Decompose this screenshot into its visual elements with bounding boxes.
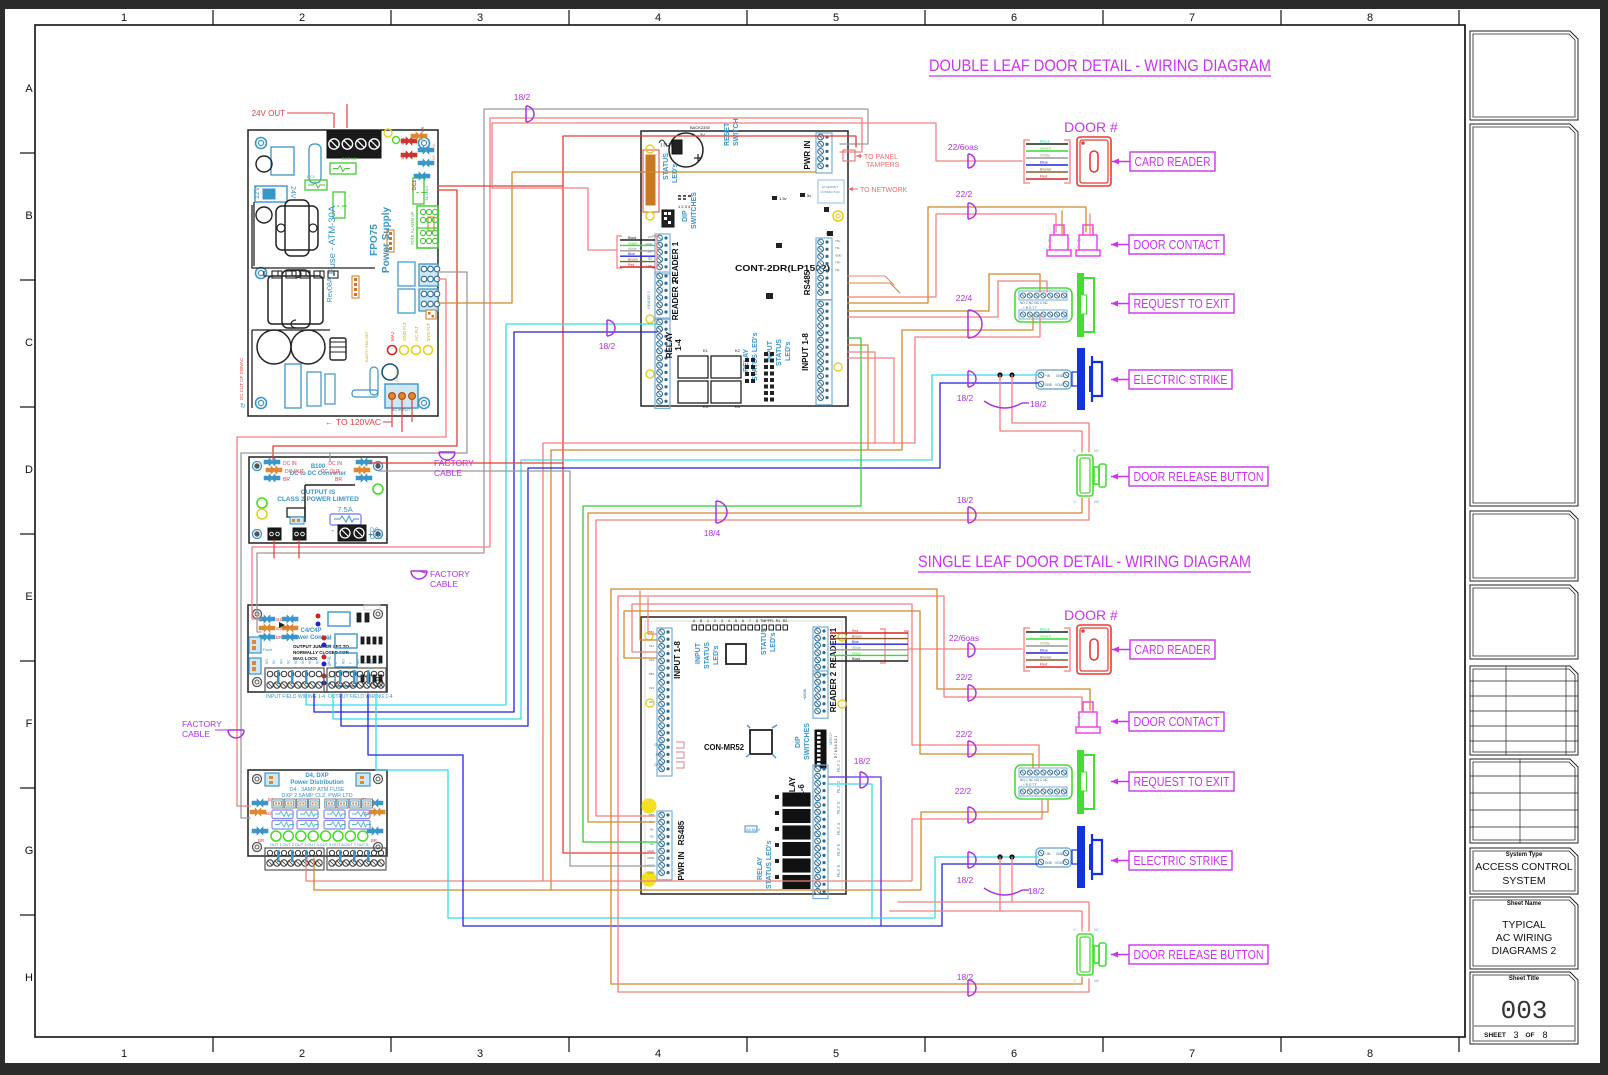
cable tie 18/2 release2 bottom bbox=[968, 980, 976, 996]
svg-text:V+: V+ bbox=[431, 154, 436, 160]
junction dots on strike 1 wires bbox=[997, 372, 1002, 377]
svg-text:DOOR RELEASE BUTTON: DOOR RELEASE BUTTON bbox=[1134, 948, 1264, 962]
door contact DC1b bbox=[1076, 225, 1100, 256]
svg-text:Green: Green bbox=[1040, 634, 1051, 639]
svg-text:IN-: IN- bbox=[650, 827, 654, 831]
PS1 output terminal block bbox=[327, 131, 381, 158]
wire: PS to D4 B1 (salmon) bbox=[237, 279, 446, 806]
access controller U2 CON-MR52 bbox=[641, 617, 846, 899]
svg-text:STATUS: STATUS bbox=[761, 628, 768, 655]
wire: REX2 feed (orange) bbox=[624, 611, 1033, 768]
svg-text:VO: VO bbox=[648, 235, 653, 239]
svg-text:Blue: Blue bbox=[1040, 648, 1049, 653]
svg-text:AC ON: AC ON bbox=[394, 369, 399, 382]
svg-text:BR: BR bbox=[420, 126, 425, 132]
svg-text:7: 7 bbox=[749, 619, 751, 623]
MR52 DIP switches bbox=[815, 730, 826, 768]
svg-text:003: 003 bbox=[1501, 996, 1548, 1026]
svg-text:LED's: LED's bbox=[770, 632, 777, 652]
title block box 3 bbox=[1470, 511, 1578, 581]
svg-text:5: 5 bbox=[833, 12, 839, 24]
terminal strip MR52 RELAY 1-6 bbox=[813, 765, 828, 899]
C4 field wiring terminal strips bbox=[265, 668, 324, 692]
svg-text:18/2: 18/2 bbox=[957, 495, 974, 505]
relays K1-K4 bbox=[678, 356, 708, 378]
svg-text:RESET: RESET bbox=[724, 122, 731, 146]
fuse F1 7.5A bbox=[330, 514, 361, 525]
wire: REX1 return to D4 (orange) bbox=[551, 315, 1033, 890]
svg-text:MR52+: MR52+ bbox=[828, 731, 833, 745]
svg-text:TAMPERS: TAMPERS bbox=[866, 162, 900, 169]
terminal strip MR52 RS485 / PWR IN bbox=[657, 811, 672, 880]
svg-text:+: + bbox=[368, 530, 373, 539]
svg-text:Brown: Brown bbox=[1040, 167, 1051, 172]
cable tie 22/2 contact2 bbox=[968, 685, 976, 701]
svg-text:8: 8 bbox=[1542, 1030, 1547, 1040]
svg-text:DC CUT OF 230VAC: DC CUT OF 230VAC bbox=[239, 357, 244, 400]
svg-text:DIP: DIP bbox=[682, 210, 689, 222]
wire: REX1 feed (salmon) bbox=[848, 281, 1047, 317]
memory backup connector bbox=[646, 155, 655, 205]
svg-text:4A: 4A bbox=[327, 637, 332, 641]
svg-text:IN1: IN1 bbox=[649, 644, 654, 648]
svg-text:LED's: LED's bbox=[672, 163, 679, 183]
GND/PFL pins bbox=[676, 742, 684, 748]
svg-text:DC OUT: DC OUT bbox=[285, 469, 304, 475]
svg-text:Black: Black bbox=[628, 236, 637, 240]
cable tie 22/4 rex1 bbox=[968, 310, 982, 338]
svg-text:TR-: TR- bbox=[835, 268, 840, 272]
svg-text:+IN: +IN bbox=[1045, 852, 1051, 856]
PS1 fire alarm interface connector bbox=[417, 206, 438, 248]
svg-text:VOUT: VOUT bbox=[1055, 861, 1064, 865]
svg-text:NO C NC NO C NC: NO C NC NO C NC bbox=[1020, 778, 1049, 782]
wire: DC-DC DC IN right tap (red) bbox=[370, 462, 563, 464]
svg-text:22/6oas: 22/6oas bbox=[948, 142, 978, 152]
door contact DC1a bbox=[1047, 225, 1071, 256]
svg-text:↻: ↻ bbox=[240, 403, 246, 410]
svg-text:DC1: DC1 bbox=[307, 174, 316, 179]
terminal strip READER 2 bbox=[655, 272, 670, 319]
wire: stub into DC-DC top (gray) bbox=[329, 453, 331, 461]
PS1 battery/output fasteners bbox=[401, 137, 417, 145]
D4 output LEDs bbox=[271, 831, 281, 841]
wire: RS485 bus CONT-2DR to MR52 (green) bbox=[583, 338, 861, 842]
svg-text:DOOR CONTACT: DOOR CONTACT bbox=[1134, 238, 1220, 252]
wire: MR52 input stub (orange) bbox=[640, 591, 657, 640]
svg-text:5: 5 bbox=[735, 619, 737, 623]
svg-text:ETHERNET: ETHERNET bbox=[822, 185, 838, 189]
svg-text:DC2 NC: DC2 NC bbox=[342, 156, 357, 161]
svg-text:NO: NO bbox=[279, 659, 283, 664]
terminal strip MR52 INPUT 1-8 bbox=[657, 628, 672, 776]
svg-text:6: 6 bbox=[742, 619, 744, 623]
svg-text:NO: NO bbox=[294, 659, 298, 664]
svg-text:RS485: RS485 bbox=[803, 270, 812, 295]
power supply board PS1 FPO75 bbox=[239, 104, 440, 416]
svg-text:NO: NO bbox=[1094, 500, 1100, 504]
wire: door contact 2 loop (orange) bbox=[611, 589, 1090, 984]
svg-text:D: D bbox=[25, 464, 33, 476]
svg-text:IN3: IN3 bbox=[649, 686, 654, 690]
svg-text:READER 2: READER 2 bbox=[671, 279, 680, 320]
DIP switches SW1 bbox=[662, 210, 674, 227]
svg-text:6: 6 bbox=[1011, 12, 1017, 24]
svg-text:B2: B2 bbox=[266, 811, 272, 816]
svg-text:24V OUT: 24V OUT bbox=[252, 109, 285, 118]
svg-text:FACTORY: FACTORY bbox=[434, 458, 474, 468]
svg-text:GND: GND bbox=[1045, 383, 1053, 387]
svg-text:DC1: DC1 bbox=[412, 180, 418, 190]
svg-text:Red: Red bbox=[1040, 662, 1047, 667]
wire: REX1 feed (orange) bbox=[848, 274, 1040, 311]
wire: DC-DC bottom stub 2 (red) bbox=[298, 540, 300, 558]
svg-text:CABLE: CABLE bbox=[430, 579, 458, 589]
svg-text:Red: Red bbox=[1040, 174, 1047, 179]
MR52 relays K1-K6 bbox=[783, 793, 810, 806]
svg-text:BAT: BAT bbox=[400, 151, 405, 159]
svg-text:5v: 5v bbox=[807, 193, 811, 198]
svg-text:- + R G T T: - + R G T T bbox=[1021, 306, 1037, 310]
label ELECTRIC STRIKE (single leaf) bbox=[1129, 851, 1232, 870]
label DOOR RELEASE BUTTON (single leaf) bbox=[1129, 945, 1268, 964]
svg-text:RLY 5: RLY 5 bbox=[836, 843, 841, 856]
svg-text:1 2 3 4: 1 2 3 4 bbox=[678, 204, 691, 209]
svg-text:GND: GND bbox=[1045, 861, 1053, 865]
svg-text:RLY 4: RLY 4 bbox=[836, 822, 841, 835]
PS1 filter capacitors bbox=[257, 330, 291, 364]
cable tie factory 3 bbox=[228, 730, 244, 738]
svg-text:V-: V- bbox=[431, 143, 436, 147]
svg-text:BA1: BA1 bbox=[400, 136, 405, 144]
svg-text:CON-MR52: CON-MR52 bbox=[704, 743, 745, 752]
title block column bbox=[1464, 25, 1466, 1037]
wire: reader 1 cable to card reader (salmon) bbox=[492, 123, 1022, 250]
svg-text:Rev08A: Rev08A bbox=[327, 277, 334, 302]
svg-text:1: 1 bbox=[121, 12, 127, 24]
label CARD READER (double leaf) bbox=[1130, 152, 1215, 171]
svg-text:INPUT 1-8: INPUT 1-8 bbox=[673, 641, 682, 679]
wire: DC-DC output to MR52 GND (gray) bbox=[379, 471, 655, 866]
svg-text:DOOR CONTACT: DOOR CONTACT bbox=[1134, 715, 1220, 729]
svg-text:LED's: LED's bbox=[785, 341, 792, 361]
svg-text:NO: NO bbox=[1048, 239, 1053, 243]
D4 output terminal strips bbox=[265, 848, 324, 870]
power control board C4/C4P bbox=[248, 605, 393, 700]
svg-text:3: 3 bbox=[477, 12, 483, 24]
PS1 transformer T2 bbox=[268, 276, 323, 324]
svg-text:Fuse - ATM-30A: Fuse - ATM-30A bbox=[327, 205, 338, 274]
svg-text:STATUS: STATUS bbox=[704, 642, 711, 669]
wire: contact DC1b stub bbox=[1089, 214, 1091, 236]
cable tie 18/2 release long bbox=[968, 507, 976, 523]
svg-text:SWITCHES: SWITCHES bbox=[804, 723, 811, 760]
svg-text:NL1/NL4: NL1/NL4 bbox=[425, 186, 429, 200]
wire: MR52 relay (cyan) bbox=[829, 784, 872, 918]
wire: PS ground bus to PWR IN and C4 B2 (gray) bbox=[257, 109, 868, 632]
label ELECTRIC STRIKE (double leaf) bbox=[1129, 370, 1232, 389]
cable tie 22/2 contact1 bbox=[968, 203, 976, 219]
svg-text:+MGIN: +MGIN bbox=[803, 688, 807, 700]
svg-text:C: C bbox=[25, 337, 33, 349]
wire: PS to CONT-2DR PWR (orange) bbox=[438, 172, 816, 303]
svg-text:TO NETWORK: TO NETWORK bbox=[860, 187, 908, 194]
svg-text:NC: NC bbox=[272, 659, 276, 664]
svg-text:MAJ: MAJ bbox=[390, 332, 395, 341]
svg-text:TO PANEL: TO PANEL bbox=[864, 154, 898, 161]
svg-text:22/2: 22/2 bbox=[956, 672, 973, 682]
cable tie 22/6 reader1 bbox=[968, 154, 975, 168]
wire: red bus PWR IN / MR52 PWR (red) bbox=[563, 136, 856, 853]
wire: PS to DC-DC DC IN (red) bbox=[273, 190, 457, 459]
svg-text:SYSTEM: SYSTEM bbox=[1502, 875, 1545, 887]
svg-text:Blue: Blue bbox=[628, 252, 635, 256]
svg-text:DOOR #: DOOR # bbox=[1064, 119, 1118, 135]
terminal strip READER 1 bbox=[655, 234, 670, 274]
svg-text:SYS FLT: SYS FLT bbox=[426, 323, 431, 341]
svg-text:PWR IN: PWR IN bbox=[803, 140, 812, 169]
svg-text:DXP 2.5AMP CL2. PWR LTD: DXP 2.5AMP CL2. PWR LTD bbox=[281, 793, 352, 799]
svg-text:INPUT: INPUT bbox=[695, 642, 702, 664]
svg-text:NO: NO bbox=[356, 659, 360, 664]
svg-text:7: 7 bbox=[1189, 1048, 1195, 1060]
title block box 2 bbox=[1470, 124, 1578, 506]
svg-text:DOUBLE LEAF DOOR DETAIL - WIR: DOUBLE LEAF DOOR DETAIL - WIRING DIAGRAM bbox=[929, 56, 1271, 75]
svg-text:G: G bbox=[25, 845, 34, 857]
wire: DC-DC bottom stub 1 (red) bbox=[273, 540, 275, 558]
svg-text:NC: NC bbox=[287, 659, 291, 664]
MR52 IC U3 bbox=[750, 730, 772, 754]
wire: REX2 feed (salmon) bbox=[632, 604, 1039, 768]
cable tie 18/2 top bbox=[526, 106, 534, 122]
svg-text:OUT 6: OUT 6 bbox=[332, 842, 344, 847]
svg-text:RELAY: RELAY bbox=[665, 331, 674, 358]
DC-DC output terminal block bbox=[338, 525, 366, 541]
svg-text:RLY 2: RLY 2 bbox=[836, 780, 841, 793]
request to exit sensor REX1 bbox=[1015, 273, 1094, 337]
svg-text:PFL: PFL bbox=[656, 753, 662, 757]
wire: D4 OUT to REX2 (orange) bbox=[314, 800, 1048, 890]
svg-text:NO: NO bbox=[1094, 979, 1100, 983]
title block box 4 bbox=[1470, 585, 1578, 659]
wire: strike2 tap to release button 2 C (salmon) bbox=[1000, 911, 1082, 931]
card reader RDR1 (door 1) bbox=[1024, 137, 1111, 186]
cable tie 22/2 rex2 bottom bbox=[968, 807, 976, 823]
cable tie 22/6 reader2 bbox=[968, 643, 975, 657]
svg-text:NO: NO bbox=[1077, 239, 1082, 243]
svg-text:OUT 7: OUT 7 bbox=[344, 842, 356, 847]
svg-text:ELECTRIC STRIKE: ELECTRIC STRIKE bbox=[1134, 373, 1228, 387]
svg-text:S2: S2 bbox=[826, 231, 832, 236]
svg-text:TB2: TB2 bbox=[648, 672, 654, 676]
svg-text:1.5v: 1.5v bbox=[779, 196, 787, 201]
svg-text:TR+: TR+ bbox=[835, 261, 841, 265]
svg-text:Green: Green bbox=[628, 241, 638, 245]
svg-text:DOOR #: DOOR # bbox=[1064, 607, 1118, 623]
wire: door release 2 NO (salmon) bbox=[618, 979, 1089, 992]
svg-text:OUTPUT FIELD WIRING 1-4: OUTPUT FIELD WIRING 1-4 bbox=[328, 694, 393, 700]
svg-text:18/2: 18/2 bbox=[957, 393, 974, 403]
svg-text:OF: OF bbox=[1525, 1032, 1534, 1039]
svg-text:FIRE ALARM I/F: FIRE ALARM I/F bbox=[410, 211, 415, 245]
svg-text:Blue: Blue bbox=[1040, 160, 1049, 165]
sheet name box bbox=[1470, 897, 1578, 969]
wire: strike1 tap to release button C (salmon) bbox=[1000, 375, 1082, 452]
svg-text:CLASS 2 POWER LIMITED: CLASS 2 POWER LIMITED bbox=[277, 496, 359, 503]
svg-text:RLY 6: RLY 6 bbox=[836, 864, 841, 877]
terminal strip RELAY 1-4 bbox=[655, 318, 670, 408]
svg-text:NO: NO bbox=[308, 659, 312, 664]
svg-text:SINGLE LEAF DOOR DETAIL - WIRI: SINGLE LEAF DOOR DETAIL - WIRING DIAGRAM bbox=[918, 552, 1251, 571]
terminal strip PWR IN bbox=[816, 133, 832, 173]
svg-text:2: 2 bbox=[299, 1048, 305, 1060]
svg-text:1-4: 1-4 bbox=[674, 339, 683, 351]
svg-text:AC FLT: AC FLT bbox=[414, 326, 419, 341]
terminal strip MR52 READER 2 bbox=[813, 671, 828, 718]
svg-text:SWITCHES: SWITCHES bbox=[691, 192, 698, 229]
svg-text:22/2: 22/2 bbox=[955, 786, 972, 796]
wire: MR52 reader cable to card reader 2 (salmon) bbox=[908, 648, 1022, 650]
svg-text:CARD READER: CARD READER bbox=[1135, 643, 1211, 657]
svg-text:Brown: Brown bbox=[628, 258, 638, 262]
svg-text:GND: GND bbox=[647, 871, 655, 875]
svg-text:RLY 1: RLY 1 bbox=[836, 759, 841, 772]
label REQUEST TO EXIT (double leaf) bbox=[1129, 294, 1234, 313]
cable tie factory 1 bbox=[439, 452, 455, 460]
wire: REX1 return to D4 (salmon) bbox=[543, 315, 1040, 881]
label TO NETWORK bbox=[848, 188, 858, 190]
svg-text:CABLE: CABLE bbox=[182, 729, 210, 739]
svg-text:OUT 3: OUT 3 bbox=[295, 842, 307, 847]
sheet title box bbox=[1470, 972, 1578, 1044]
svg-text:3: 3 bbox=[477, 1048, 483, 1060]
svg-text:System Type: System Type bbox=[1506, 852, 1543, 858]
svg-text:ELECTRIC STRIKE: ELECTRIC STRIKE bbox=[1134, 854, 1228, 868]
svg-text:TR-: TR- bbox=[835, 246, 840, 250]
svg-text:2: 2 bbox=[714, 619, 716, 623]
DC-DC converter board B100 bbox=[249, 457, 387, 543]
svg-text:VOUT: VOUT bbox=[1055, 383, 1064, 387]
label DOOR RELEASE BUTTON (double leaf) bbox=[1129, 467, 1268, 486]
electric strike ES2 bbox=[1036, 826, 1102, 888]
svg-text:GND: GND bbox=[654, 763, 662, 767]
svg-text:AC WIRING: AC WIRING bbox=[1496, 932, 1553, 944]
svg-text:18/2: 18/2 bbox=[957, 875, 974, 885]
svg-text:BR: BR bbox=[283, 477, 290, 483]
svg-text:5: 5 bbox=[833, 1048, 839, 1060]
svg-text:NO: NO bbox=[341, 659, 345, 664]
svg-text:INPUT FIELD WIRING 1-4: INPUT FIELD WIRING 1-4 bbox=[266, 694, 325, 700]
door contact DC2 bbox=[1076, 702, 1100, 733]
svg-text:Red: Red bbox=[628, 263, 634, 267]
svg-text:4: 4 bbox=[655, 1048, 661, 1060]
svg-text:H: H bbox=[25, 972, 33, 984]
svg-text:OUT 1: OUT 1 bbox=[270, 842, 282, 847]
svg-text:6: 6 bbox=[1011, 1048, 1017, 1060]
svg-text:PWR IN: PWR IN bbox=[677, 851, 686, 880]
ruler ticks bbox=[212, 10, 214, 25]
wire: PS DC1 tap (red) bbox=[438, 185, 563, 187]
wire: strike2 tap junction run (salmon) bbox=[890, 857, 1000, 911]
svg-text:24V: 24V bbox=[289, 186, 296, 199]
svg-text:18/2: 18/2 bbox=[599, 341, 616, 351]
wire: door release 1 to MR52 (salmon) bbox=[596, 498, 1089, 816]
svg-text:FACTORY: FACTORY bbox=[430, 569, 470, 579]
svg-text:NC: NC bbox=[1094, 928, 1100, 932]
wire: door contact 1 (orange) bbox=[848, 207, 1086, 303]
svg-text:22/4: 22/4 bbox=[956, 293, 973, 303]
svg-text:CONNECTOR: CONNECTOR bbox=[820, 190, 840, 194]
svg-text:RS485: RS485 bbox=[677, 820, 686, 845]
svg-text:F: F bbox=[26, 718, 33, 730]
svg-text:K2: K2 bbox=[735, 348, 741, 353]
svg-text:18/2: 18/2 bbox=[854, 756, 871, 766]
svg-text:A: A bbox=[25, 83, 33, 95]
wire: contact DC1a stub bbox=[1061, 211, 1063, 236]
svg-text:C4/C4P: C4/C4P bbox=[300, 628, 321, 634]
svg-text:2: 2 bbox=[299, 12, 305, 24]
wire: C4 output to electric strike 2 (blue) bbox=[368, 694, 1038, 926]
label TO PANEL TAMPERS bbox=[843, 150, 855, 161]
wire: input tap (salmon) bbox=[848, 352, 875, 443]
title block box 1 bbox=[1470, 31, 1578, 120]
svg-text:GND: GND bbox=[835, 253, 843, 257]
svg-text:DC OUT: DC OUT bbox=[321, 469, 340, 475]
svg-text:K3: K3 bbox=[703, 404, 709, 409]
svg-text:8: 8 bbox=[1367, 12, 1373, 24]
cable tie 18/4 bbox=[716, 501, 727, 523]
svg-text:4: 4 bbox=[728, 619, 730, 623]
wire: strike2 tap junction run 2 (salmon) bbox=[898, 857, 1012, 902]
electric strike ES1 bbox=[1036, 348, 1102, 410]
svg-text:-: - bbox=[331, 526, 334, 535]
svg-text:BZ: BZ bbox=[648, 257, 652, 261]
svg-text:CABLE: CABLE bbox=[434, 468, 462, 478]
svg-text:DC IN: DC IN bbox=[328, 461, 342, 467]
cable tie 18/2 strike2 bbox=[968, 852, 976, 868]
wire: door contact 2 loop (salmon) bbox=[618, 596, 1082, 992]
svg-text:Red: Red bbox=[852, 629, 858, 633]
title block revision table bbox=[1470, 666, 1578, 755]
cable tie 22/2 rex2 top bbox=[968, 741, 976, 757]
svg-text:Green: Green bbox=[852, 651, 862, 655]
svg-text:NC: NC bbox=[301, 659, 305, 664]
svg-text:18/2: 18/2 bbox=[1028, 886, 1045, 896]
request to exit sensor REX2 bbox=[1015, 750, 1094, 814]
svg-text:7: 7 bbox=[1189, 12, 1195, 24]
svg-text:White: White bbox=[628, 247, 637, 251]
svg-text:OUT 4: OUT 4 bbox=[307, 842, 319, 847]
svg-text:OUTPUT IS: OUTPUT IS bbox=[301, 489, 336, 496]
svg-text:Black: Black bbox=[852, 657, 861, 661]
wire: door release 2 C (orange) bbox=[611, 977, 1082, 984]
svg-text:R1: R1 bbox=[776, 619, 781, 623]
label DOOR CONTACT (single leaf) bbox=[1129, 712, 1224, 731]
PS1 status LEDs bbox=[388, 346, 397, 355]
svg-text:DIAGRAMS 2: DIAGRAMS 2 bbox=[1492, 945, 1557, 957]
label REQUEST TO EXIT (single leaf) bbox=[1129, 772, 1234, 791]
svg-text:BACK2330: BACK2330 bbox=[690, 125, 711, 130]
svg-text:D4, DXP: D4, DXP bbox=[305, 773, 328, 779]
svg-text:8: 8 bbox=[1367, 1048, 1373, 1060]
PS1 components bbox=[271, 147, 294, 175]
svg-text:←: ← bbox=[325, 418, 333, 427]
svg-text:STATUS LED's: STATUS LED's bbox=[766, 840, 773, 889]
svg-text:Power Distribution: Power Distribution bbox=[290, 780, 344, 786]
svg-text:STATUS: STATUS bbox=[776, 339, 783, 366]
svg-text:BR: BR bbox=[276, 635, 283, 640]
cable tie 18/2 mr52 relay bbox=[860, 772, 868, 788]
